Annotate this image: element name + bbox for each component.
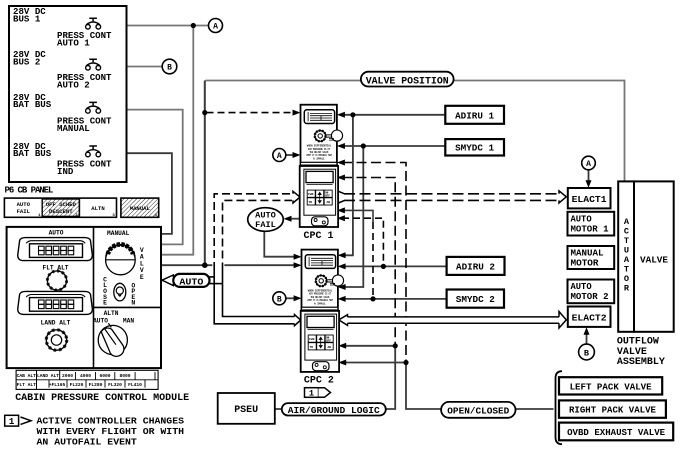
svg-text:E: E <box>140 274 144 281</box>
svg-text:SMYDC 1: SMYDC 1 <box>455 143 494 154</box>
wire breaker AUTO2 to node B <box>101 66 162 68</box>
dashed pair open head at ELACT1 <box>559 191 566 203</box>
CPC unit separator <box>301 162 337 165</box>
wire SMYDC2 to CPC2 <box>343 298 447 300</box>
vertical label OPEN <box>131 282 135 306</box>
node dot valve-pos riser / module line <box>202 262 208 268</box>
svg-text:OPEN/CLOSED: OPEN/CLOSED <box>447 406 509 417</box>
svg-text:AUTO: AUTO <box>93 318 108 325</box>
svg-text:B: B <box>584 349 589 359</box>
node dot ADIRU1 / V1 <box>350 112 355 117</box>
arrowhead into CPC2 right y362.5 <box>338 360 346 366</box>
svg-text:FLT ALT: FLT ALT <box>17 382 37 388</box>
svg-text:CPC 1: CPC 1 <box>304 231 334 242</box>
arrowhead into CPC2 left y265.2 <box>294 262 302 268</box>
AUTO bus open head at CPC2 <box>295 315 301 326</box>
svg-text:AN AUTOFAIL EVENT: AN AUTOFAIL EVENT <box>37 437 138 448</box>
svg-text:AIR/GROUND LOGIC: AIR/GROUND LOGIC <box>288 405 380 416</box>
CPC lower unit box <box>300 166 338 227</box>
vertical label CLOSE <box>103 276 107 306</box>
box AUTO MOTOR 2 <box>568 280 615 304</box>
wire V2 SMYDC1 branch to CPC2 <box>343 146 364 287</box>
flag 1 note symbol <box>5 415 31 426</box>
box VALVE <box>634 181 674 331</box>
svg-text:AUTO: AUTO <box>571 282 592 292</box>
wire CPC1 to AUTO FAIL <box>287 218 301 220</box>
arrowhead into CPC1 right y162.5 <box>337 160 345 166</box>
svg-text:DESCENT: DESCENT <box>49 208 73 215</box>
arrowhead into CPC2 left y298.3 <box>294 295 302 301</box>
svg-text:AB: AB <box>327 201 331 204</box>
svg-text:FAIL: FAIL <box>17 208 31 215</box>
svg-text:ASSEMBLY: ASSEMBLY <box>617 356 665 367</box>
arrowhead into CPC2 left y256.7 <box>294 254 302 260</box>
svg-text:PSEU: PSEU <box>234 405 258 416</box>
arrowhead into CPC1 right y177.5 <box>337 175 345 181</box>
svg-text:IND: IND <box>57 166 74 177</box>
svg-text:FL280: FL280 <box>89 382 103 388</box>
CPC connector icon <box>331 130 342 141</box>
svg-text:LAND ALT: LAND ALT <box>41 320 71 327</box>
svg-text:MOTOR: MOTOR <box>571 258 600 268</box>
svg-text:AUTO: AUTO <box>179 276 203 287</box>
box AUTO MOTOR 1 <box>568 212 615 236</box>
node dot valve-pos riser / CPC1 dashed <box>202 110 207 115</box>
arrowhead into CPC2 right y266.4 <box>338 263 346 269</box>
svg-text:T: T <box>624 236 629 246</box>
arrowhead into CPC2 right y287 <box>338 284 346 290</box>
svg-text:ACTIVE CONTROLLER CHANGES: ACTIVE CONTROLLER CHANGES <box>37 416 185 427</box>
node B2 at CPC2 <box>273 292 286 305</box>
breaker CB IND <box>86 146 101 157</box>
box ELACT2 <box>568 307 611 327</box>
bus ELACT2 to CPC2 body <box>346 317 560 323</box>
note text active controller <box>37 416 185 448</box>
svg-text:AUTO: AUTO <box>255 210 276 220</box>
breaker CB AUTO1 <box>86 18 101 29</box>
svg-text:ALTN: ALTN <box>91 205 104 212</box>
wire AUTO bus vertical right <box>223 271 295 317</box>
svg-text:N: N <box>131 300 135 307</box>
module divider vertical <box>93 227 95 368</box>
node dot breaker1/A riser <box>191 23 196 28</box>
wire VALVE POSITION net <box>205 81 624 183</box>
svg-text:A SMALL: A SMALL <box>313 157 325 160</box>
svg-text:CAB ALT: CAB ALT <box>17 373 37 379</box>
svg-text:O: O <box>624 274 629 284</box>
node dot SMYDC2 / L_a <box>370 296 375 301</box>
box ADIRU 2 <box>447 257 505 275</box>
svg-text:FLT ALT: FLT ALT <box>43 264 69 271</box>
P6 CB panel box <box>9 6 127 182</box>
svg-text:4000: 4000 <box>80 373 91 379</box>
box ELACT1 <box>568 188 611 208</box>
node B3 below ELACT2 <box>579 344 595 360</box>
AUTO bus open head at module <box>162 275 173 286</box>
svg-text:RIGHT PACK VALVE: RIGHT PACK VALVE <box>569 405 657 416</box>
svg-text:BUS 1: BUS 1 <box>13 14 41 25</box>
svg-text:OFF: OFF <box>325 194 330 197</box>
wire breaker MANUAL to module <box>101 110 183 245</box>
dashed pair open head at CPC1 <box>293 191 300 203</box>
svg-text:CABIN PRESSURE CONTROL MODULE: CABIN PRESSURE CONTROL MODULE <box>15 393 189 404</box>
box SMYDC 2 <box>447 290 504 308</box>
svg-text:AUTO 2: AUTO 2 <box>57 80 90 91</box>
svg-text:FL410: FL410 <box>128 382 142 388</box>
svg-text:B: B <box>167 64 172 73</box>
svg-text:ADIRU 2: ADIRU 2 <box>456 261 495 272</box>
svg-text:VALVE POSITION: VALVE POSITION <box>366 76 449 87</box>
svg-text:FL220: FL220 <box>70 382 84 388</box>
dashed pair lower: module side to CPC1 <box>223 200 293 270</box>
svg-text:BAT BUS: BAT BUS <box>13 148 52 159</box>
arrowhead into ELACT1 from node A3 <box>586 180 592 188</box>
svg-text:A: A <box>277 152 282 161</box>
svg-text:OVBD EXHAUST VALVE: OVBD EXHAUST VALVE <box>567 427 666 438</box>
arrowhead into CPC2 right y255.3 <box>338 252 346 258</box>
annunciator MANUAL hatched <box>121 198 159 217</box>
module box <box>7 227 161 368</box>
wire AUTO FAIL to CPC2 <box>264 231 296 257</box>
node dot ADIRU2 / L_b <box>381 264 386 269</box>
svg-text:BAT BUS: BAT BUS <box>13 99 52 110</box>
svg-text:MOTOR 2: MOTOR 2 <box>571 292 609 302</box>
svg-text:LAND ALT: LAND ALT <box>37 373 59 379</box>
breaker CB AUTO2 <box>86 59 101 70</box>
knob FLT ALT <box>47 271 66 290</box>
svg-text:U: U <box>624 246 629 256</box>
svg-text:P6 CB PANEL: P6 CB PANEL <box>5 186 54 196</box>
box ADIRU 1 <box>445 106 504 124</box>
svg-text:A: A <box>586 160 591 169</box>
arrowhead into CPC1 right y114.8 <box>337 112 345 118</box>
box LEFT PACK VALVE <box>559 377 662 394</box>
svg-text:SMYDC 2: SMYDC 2 <box>456 294 495 305</box>
gauge manual valve <box>106 244 136 274</box>
svg-text:CPC 2: CPC 2 <box>304 376 334 387</box>
box ACTUATOR <box>618 181 634 331</box>
arrowhead into CPC1 right y146 <box>337 143 345 149</box>
dashed wire D2 CPC1 to AIR/GROUND node <box>342 178 395 346</box>
wire AUTO1 riser to module <box>161 26 193 255</box>
wire breaker IND to module <box>101 153 172 234</box>
svg-text:MAN: MAN <box>123 318 134 325</box>
svg-text:A: A <box>213 23 218 32</box>
svg-text:LEFT PACK VALVE: LEFT PACK VALVE <box>570 381 653 392</box>
wire SMYDC1 to CPC1 <box>342 145 445 147</box>
wire node B3 to ELACT2 <box>586 331 588 345</box>
svg-text:6000: 6000 <box>99 373 110 379</box>
svg-text:AUTO 1: AUTO 1 <box>57 37 90 48</box>
wire valve position to module and CPC2 <box>161 264 296 266</box>
vertical label VALVE <box>140 247 144 281</box>
svg-text:MANUAL: MANUAL <box>107 230 130 237</box>
svg-text:C: C <box>624 227 629 237</box>
wire AUTO bus stub upper <box>210 276 215 278</box>
wire AIR/GROUND riser to CPC2 <box>343 346 396 409</box>
bus open head at ELACT2 <box>559 312 566 329</box>
arrowhead into CPC1 right y218.2 <box>337 215 345 221</box>
CPC display window <box>306 171 333 182</box>
arrowhead into CPC1 left y155 <box>293 152 301 158</box>
wire PSEU to AIR/GROUND LOGIC <box>275 408 282 410</box>
box MANUAL MOTOR <box>568 246 615 269</box>
svg-text:TR: TR <box>309 201 313 204</box>
dashed wire L_a lower to SMYDC2 node <box>372 222 374 299</box>
annunciator AUTO FAIL <box>4 198 116 217</box>
svg-text:B: B <box>277 296 282 305</box>
svg-text:1: 1 <box>309 389 314 399</box>
dashed pair upper: CPC1 to ELACT1 <box>344 193 559 195</box>
wire OPEN/CLOSED riser to CPC2 <box>343 362 407 364</box>
display LAND ALT <box>18 291 93 314</box>
svg-text:BUS 2: BUS 2 <box>13 56 40 67</box>
wire OPEN/CLOSED stadium link <box>406 363 441 410</box>
knob selector ALTN <box>98 323 127 356</box>
wire AUTO bus stub lower <box>210 283 223 285</box>
CPC keypad <box>307 190 332 205</box>
svg-text:8000: 8000 <box>119 373 130 379</box>
wire ADIRU2 to CPC2 <box>343 265 447 267</box>
box SMYDC 1 <box>445 139 504 155</box>
dashed pair tail hooks at CPC1 right <box>338 191 344 203</box>
arrowhead into ELACT2 from node B3 <box>584 327 590 335</box>
svg-text:AUTO: AUTO <box>49 229 64 236</box>
svg-text:MANUAL: MANUAL <box>57 123 90 134</box>
wire node B2 to CPC2 <box>286 297 297 299</box>
breaker CB MANUAL <box>86 102 101 113</box>
dashed wire L_b CPC1 to ADIRU2 node <box>342 218 383 266</box>
wire valve position riser <box>204 81 206 266</box>
node B top <box>162 59 177 74</box>
arrowhead into CPC1 right y210.4 <box>337 207 345 213</box>
svg-text:E: E <box>103 300 107 307</box>
annunciator OFF SCHED DESCENT hatched <box>42 199 79 216</box>
svg-text:+FL165: +FL165 <box>49 382 66 388</box>
svg-text:FWD: FWD <box>308 193 314 196</box>
svg-text:ALTN: ALTN <box>104 310 119 317</box>
dashed wire D1 CPC1 to OPEN/CLOSED node <box>342 163 406 363</box>
arrowhead into AUTO FAIL <box>284 216 292 222</box>
CPC upper unit box <box>301 105 337 165</box>
scale table below module <box>16 370 158 389</box>
dashed wire node to CPC1 top left <box>207 112 294 114</box>
module divider horizontal manual/altn <box>94 306 162 308</box>
node dot OPEN/CLOSED <box>403 360 408 365</box>
svg-text:AUTO: AUTO <box>571 215 592 225</box>
wire OPEN/CLOSED to bracket <box>516 408 554 410</box>
wire ADIRU1 to CPC1 <box>342 114 445 116</box>
wire node A3 to ELACT1 <box>588 170 590 184</box>
svg-text:ELACT2: ELACT2 <box>572 313 607 324</box>
wire breaker AUTO1 to node A <box>101 25 209 27</box>
svg-text:VALVE: VALVE <box>640 255 668 266</box>
svg-text:MANUAL: MANUAL <box>571 248 604 258</box>
flag 1 at CPC2 <box>305 388 331 398</box>
svg-text:FL320: FL320 <box>108 382 122 388</box>
box RIGHT PACK VALVE <box>559 400 666 417</box>
CPC bottom connector <box>312 217 329 226</box>
arrowhead into CPC2 right y345.8 <box>338 343 346 349</box>
wire CPC1 aux output L_a <box>342 210 373 222</box>
display FLT ALT <box>18 238 93 261</box>
wire AUTO bus vertical left <box>214 270 294 324</box>
node A3 above ELACT1 <box>582 156 596 170</box>
svg-text:T: T <box>624 265 629 275</box>
dashed pair lower: CPC1 to ELACT1 <box>344 199 559 201</box>
svg-text:A: A <box>624 255 630 265</box>
dashed pair upper: module side to CPC1 <box>214 194 292 270</box>
node dot SMYDC1 / V2 <box>361 143 366 148</box>
node A top <box>209 19 223 33</box>
box OVBD EXHAUST VALVE <box>559 423 673 441</box>
svg-text:MANUAL: MANUAL <box>130 205 151 212</box>
svg-text:ELACT1: ELACT1 <box>572 194 607 205</box>
svg-text:1: 1 <box>9 417 15 427</box>
node dot AIR/GROUND <box>393 343 398 348</box>
svg-text:2000: 2000 <box>62 373 73 379</box>
toggle switch manual <box>114 283 126 301</box>
label OUTFLOW VALVE ASSEMBLY <box>617 336 665 368</box>
svg-text:ADIRU 1: ADIRU 1 <box>455 110 494 121</box>
CPC nameplate <box>304 110 334 124</box>
svg-text:R: R <box>624 284 630 294</box>
wire node A2 to CPC1 <box>286 154 296 156</box>
CPC text block <box>306 145 332 161</box>
bracket curly <box>556 371 563 444</box>
bus open head at CPC2 <box>339 315 348 326</box>
svg-text:WITH EVERY FLIGHT OR WITH: WITH EVERY FLIGHT OR WITH <box>37 426 185 437</box>
svg-text:A: A <box>624 217 630 227</box>
svg-text:MOTOR 1: MOTOR 1 <box>571 225 609 235</box>
node A2 at CPC1 <box>273 149 286 162</box>
knob LAND ALT <box>46 330 66 350</box>
wire V1 ADIRU1 branch to CPC2 <box>343 115 353 256</box>
arrowhead into CPC2 right y298.9 <box>338 296 346 302</box>
svg-text:FAIL: FAIL <box>255 220 276 230</box>
arrowhead into CPC1 left y112 <box>293 110 301 116</box>
